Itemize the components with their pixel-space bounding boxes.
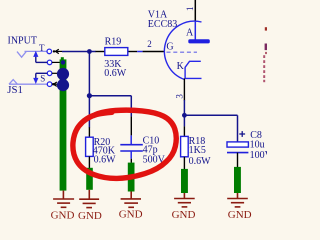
- svg-text:GND: GND: [78, 210, 102, 222]
- svg-text:T: T: [39, 43, 45, 53]
- svg-text:S: S: [40, 74, 45, 84]
- svg-text:1K5: 1K5: [189, 145, 206, 156]
- resistor R18: [181, 126, 189, 169]
- svg-text:R19: R19: [105, 37, 122, 48]
- highlighted GND net bar (C10): [128, 163, 135, 192]
- connector JS1 jack body: [9, 51, 47, 84]
- svg-text:G: G: [166, 42, 173, 53]
- jack switch contact 3 circle: [47, 71, 52, 76]
- svg-text:GND: GND: [51, 209, 75, 221]
- jack switch arrow up: [33, 51, 47, 63]
- svg-text:K: K: [177, 61, 185, 72]
- wire node down to R20: [88, 96, 90, 128]
- highlighted GND net bar (C8): [234, 167, 241, 193]
- resistor R20: [86, 127, 94, 168]
- svg-text:JS1: JS1: [7, 84, 23, 96]
- svg-text:GND: GND: [228, 209, 252, 221]
- tube V1A pin 3 (cathode): [183, 78, 185, 100]
- tube V1A anode plate: [188, 21, 210, 44]
- junction node cathode: [182, 113, 187, 118]
- ground GND5: [227, 193, 248, 207]
- ground GND4: [174, 193, 195, 207]
- junction node grid network: [87, 93, 92, 98]
- small junction dot jack contact 2: [61, 60, 65, 64]
- junction node at input rail: [87, 49, 92, 54]
- highlighted GND net bar (R20): [86, 168, 93, 190]
- svg-text:GND: GND: [119, 208, 143, 220]
- ground GND3: [121, 192, 141, 208]
- wire down to C8: [237, 115, 239, 142]
- capacitor C8: [227, 142, 248, 167]
- svg-text:0.6W: 0.6W: [104, 68, 127, 79]
- svg-text:0.6W: 0.6W: [94, 154, 117, 165]
- big junction dot jack contact 3: [57, 68, 69, 80]
- jack switch arrow down: [33, 73, 47, 84]
- jack contact T circle: [47, 49, 52, 54]
- ground GND1: [53, 191, 74, 208]
- jack pin T with plug arrow: [53, 49, 62, 53]
- capacitor C8 polarity +: [239, 131, 245, 137]
- big junction dot jack contact S: [57, 79, 69, 91]
- wire jack T to R19: [62, 51, 96, 53]
- wire C10 column down: [130, 96, 132, 117]
- tube V1A pin 1 (anode): [194, 0, 196, 21]
- svg-text:10u: 10u: [250, 140, 265, 151]
- svg-text:100V: 100V: [250, 150, 267, 161]
- jack pin S with plug arrow: [52, 82, 60, 86]
- svg-text:2: 2: [147, 39, 152, 49]
- svg-text:1: 1: [185, 7, 195, 12]
- jack contact S circle: [47, 82, 52, 87]
- annotation red circle: [73, 110, 176, 178]
- svg-text:INPUT: INPUT: [8, 35, 37, 46]
- jack switch pin 3: [52, 72, 61, 74]
- wire input rail down to node: [88, 52, 90, 96]
- resistor R19: [96, 48, 138, 56]
- svg-text:A: A: [186, 27, 194, 38]
- ground GND2: [79, 190, 99, 208]
- svg-text:3: 3: [174, 94, 184, 99]
- wire node down to R18: [183, 115, 185, 126]
- svg-text:ECC83: ECC83: [148, 19, 177, 30]
- highlighted GND net bar (jack): [60, 57, 67, 190]
- wire R19 to tube grid: [137, 51, 142, 53]
- wire node to C10: [89, 95, 131, 97]
- wire cathode to node: [183, 100, 185, 115]
- jack switch contact 2 circle: [47, 60, 52, 65]
- clipped red annotation marks at right edge: [263, 27, 267, 82]
- svg-text:GND: GND: [172, 209, 196, 221]
- tube V1A cathode: [185, 61, 202, 78]
- capacitor C10: [120, 116, 143, 162]
- tube V1A envelope arc: [164, 21, 201, 79]
- svg-text:0.6W: 0.6W: [189, 156, 212, 167]
- highlighted GND net bar (R18): [181, 169, 188, 193]
- wire cathode node to C8: [184, 114, 237, 116]
- jack switch pin 2: [52, 61, 61, 63]
- tube V1A pin 2 (grid): [143, 51, 165, 53]
- tube V1A grid (dashed): [167, 51, 198, 53]
